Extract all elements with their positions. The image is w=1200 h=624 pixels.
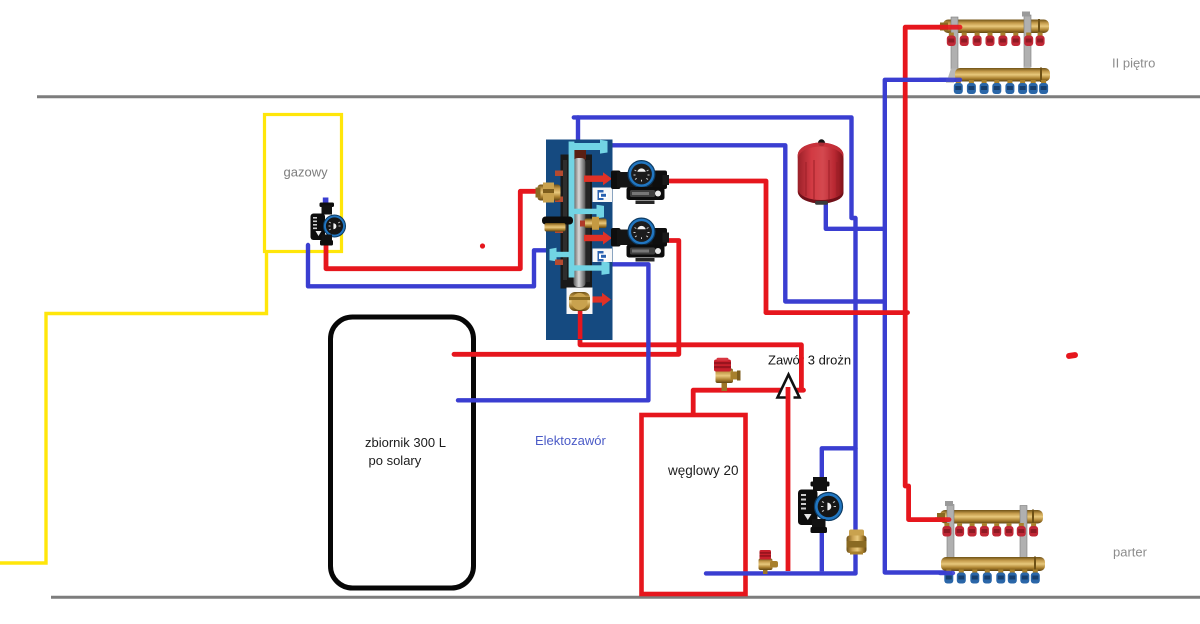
check valve xyxy=(847,530,867,555)
wire red pump2 to tank xyxy=(454,241,679,355)
tank zbiornik 300L xyxy=(331,317,474,588)
wire red triangle drop xyxy=(786,387,791,571)
wire blue separator top supply xyxy=(574,117,856,530)
separator white box 1 xyxy=(593,188,613,203)
wire blue expansion vessel xyxy=(826,198,885,229)
svg-text:Elektozawór: Elektozawór xyxy=(535,433,606,448)
wire blue gazowy pump return xyxy=(308,245,548,286)
separator silver pipe xyxy=(574,158,586,287)
wire blue separator top drop xyxy=(576,117,580,146)
wire blue below check valve xyxy=(853,551,857,573)
separator cyan pipes xyxy=(550,140,610,278)
hydraulic separator panel xyxy=(546,140,613,341)
wire red stub into manifold II xyxy=(940,25,960,30)
floor line parter xyxy=(51,596,1200,599)
separator inner column xyxy=(561,148,593,289)
svg-text:gazowy: gazowy xyxy=(284,165,329,180)
pump U1 grundfos xyxy=(611,161,669,204)
boiler weglowy outline xyxy=(642,415,746,594)
wire blue pump elbow xyxy=(822,448,856,478)
wire red header over risers xyxy=(766,310,908,315)
manifold parter xyxy=(937,501,1045,584)
separator mid brass fitting xyxy=(580,217,607,230)
wire red pump1 riser xyxy=(660,181,766,313)
red dash xyxy=(1066,352,1079,360)
wire red boiler top header xyxy=(693,390,803,414)
floor line II pietro xyxy=(37,95,1200,98)
pump P1 gazowy xyxy=(311,198,346,246)
wire blue boiler bottom xyxy=(706,571,856,575)
wire red gazowy pump to separator xyxy=(326,191,543,268)
wire blue stub into manifold II xyxy=(940,78,960,82)
separator bottom red stub xyxy=(578,311,583,339)
wire red main riser xyxy=(905,27,956,519)
separator red arrows xyxy=(584,172,612,306)
svg-text:II piętro: II piętro xyxy=(1112,56,1155,71)
svg-text:zbiornik 300 L: zbiornik 300 L xyxy=(365,435,446,450)
svg-text:Zawór 3 drożn: Zawór 3 drożn xyxy=(768,353,851,368)
valve brass left of separator xyxy=(536,183,561,203)
separator left nubs xyxy=(555,171,563,266)
valve black handle xyxy=(542,217,573,232)
separator bottom pump box xyxy=(567,288,593,315)
wire blue stub into manifold parter xyxy=(940,571,953,575)
valve 3-way triangle xyxy=(778,375,800,400)
safety valve SV1 xyxy=(714,358,741,391)
separator white box 2 xyxy=(593,249,613,263)
svg-text:węglowy 20: węglowy 20 xyxy=(667,463,739,478)
boiler gazowy yellow outline xyxy=(265,115,342,252)
wire red separator bottom to 3way xyxy=(580,336,801,389)
pump U2 grundfos xyxy=(611,218,669,261)
wire red stub into manifold parter xyxy=(936,517,949,522)
wire blue elektrozawor line xyxy=(458,264,648,400)
wire blue main return riser xyxy=(885,80,958,573)
safety valve SV2 xyxy=(759,550,779,574)
svg-text:po solary: po solary xyxy=(369,453,422,468)
yellow pipe xyxy=(0,250,267,563)
wire blue pump outlet down xyxy=(820,527,824,571)
expansion vessel xyxy=(798,139,844,205)
svg-text:parter: parter xyxy=(1113,545,1148,560)
manifold II pietro xyxy=(940,12,1050,95)
wire blue separator right return xyxy=(609,145,885,301)
pump P2 parter circuit xyxy=(798,477,843,533)
red dot xyxy=(480,243,485,248)
